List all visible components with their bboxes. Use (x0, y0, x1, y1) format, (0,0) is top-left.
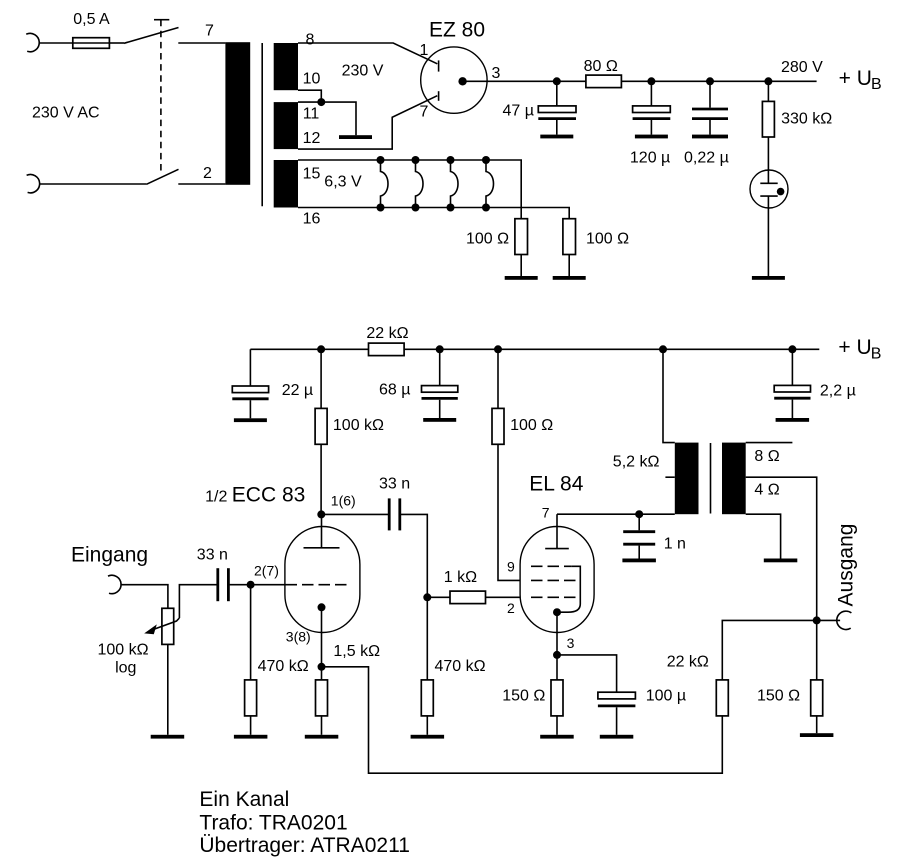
wire anode to coupling cap (321, 513, 388, 515)
capacitor 120u stem (650, 81, 652, 106)
label 22 u (282, 382, 313, 399)
svg-text:7: 7 (205, 23, 214, 40)
label 150 Ohm output (757, 688, 800, 705)
OT core (710, 443, 712, 514)
label 100 Ohm screen (510, 417, 553, 434)
label Eingang (71, 544, 148, 567)
wire plug to switch pole b (39, 183, 146, 185)
svg-text:4 Ω: 4 Ω (754, 482, 779, 499)
heater loop 2 (412, 156, 424, 212)
svg-text:0,22 µ: 0,22 µ (684, 149, 729, 166)
wire fuse to switch (109, 42, 124, 44)
svg-text:7: 7 (542, 505, 550, 521)
svg-text:100 µ: 100 µ (646, 688, 686, 705)
heater loop 1 (377, 156, 389, 212)
label 22 kOhm (366, 325, 408, 342)
svg-text:68 µ: 68 µ (379, 382, 410, 399)
resistor 330k stem (767, 81, 769, 101)
pin 10 label (303, 71, 321, 88)
mains plug top (phase) (26, 33, 39, 51)
wire 33n to grid node (230, 584, 286, 586)
svg-text:1 n: 1 n (664, 535, 686, 552)
svg-text:47 µ: 47 µ (503, 103, 534, 120)
ground 150R output (800, 733, 834, 737)
wire coupling cap to EL84 grid node (401, 514, 427, 597)
output transformer ATRA0211 primary (675, 443, 699, 515)
node ECC83 anode (317, 510, 325, 518)
svg-text:1,5 kΩ: 1,5 kΩ (333, 643, 380, 660)
transformer TRA0201 primary winding (225, 42, 250, 185)
svg-text:5,2 kΩ: 5,2 kΩ (613, 454, 660, 471)
label 1 kOhm stopper (444, 569, 477, 586)
svg-text:B: B (871, 76, 882, 93)
label 120 u (630, 149, 670, 166)
ground 1n (622, 559, 656, 563)
wire B+ rail lower (250, 348, 819, 350)
pin 7 label (205, 23, 214, 40)
svg-text:100 kΩ: 100 kΩ (98, 642, 149, 659)
output jack (837, 611, 852, 629)
neon gas dot (777, 188, 785, 196)
switch link dashed (154, 20, 169, 173)
ground 22u (234, 418, 267, 422)
svg-text:330 kΩ: 330 kΩ (781, 111, 832, 128)
svg-text:10: 10 (303, 71, 321, 88)
wire input jack to pot top (121, 585, 168, 609)
wire screen feed 100R (497, 349, 499, 408)
svg-text:100 kΩ: 100 kΩ (333, 417, 384, 434)
resistor 470k EL84 grid stem (426, 597, 428, 680)
wire 100R to EL84 g2 (498, 444, 520, 580)
resistor 80 Ohm (586, 75, 622, 88)
EZ80 pin 7 label (420, 103, 429, 120)
EZ80 cathode node (458, 77, 466, 85)
label 5,2 kOhm (613, 454, 660, 471)
ground (230V center tap) (339, 135, 372, 139)
svg-text:100 Ω: 100 Ω (466, 231, 509, 248)
label 1/2 ECC 83 (205, 484, 305, 507)
svg-text:150 Ω: 150 Ω (757, 688, 800, 705)
node OT junction (659, 345, 667, 353)
svg-text:1 kΩ: 1 kΩ (444, 569, 477, 586)
svg-text:100 Ω: 100 Ω (510, 417, 553, 434)
node output junction (813, 616, 821, 624)
node 2,2u junction (788, 345, 796, 353)
resistor 100 Ohm humdinger left (515, 219, 528, 276)
svg-text:+ U: + U (839, 67, 872, 90)
label 100 Ohm left (466, 231, 509, 248)
svg-text:120 µ: 120 µ (630, 149, 670, 166)
resistor 100 kOhm (ECC83 anode) (315, 408, 327, 444)
wire pin 12 to EZ80 anode 7 (298, 96, 437, 149)
pin 3 label (567, 635, 575, 651)
caption line 3 (199, 834, 410, 857)
ground 1,5k (305, 735, 339, 739)
svg-text:6,3 V: 6,3 V (324, 174, 362, 191)
label 33 n input (197, 547, 228, 564)
wire 100k to ECC83 anode (320, 444, 322, 514)
label 100 kOhm pot (98, 642, 149, 659)
svg-text:B: B (871, 345, 882, 362)
resistor 470 kOhm (EL84 grid) (421, 680, 433, 735)
svg-text:9: 9 (507, 559, 515, 575)
svg-text:22 µ: 22 µ (282, 382, 313, 399)
capacitor 33n input (218, 568, 229, 601)
ECC83 grid (dashed) (286, 584, 348, 586)
resistor 1 kOhm grid stopper (450, 591, 486, 604)
ground pot (151, 735, 185, 739)
capacitor 120u (electrolytic) (633, 106, 671, 135)
label 280 V (781, 59, 823, 76)
resistor 150 Ohm output (811, 680, 823, 733)
node 100R junction (494, 345, 502, 353)
resistor 100 Ohm (screen) (492, 408, 504, 444)
input jack (108, 575, 121, 593)
pin 16 label (303, 211, 321, 228)
wire switch to trafo pin 7 (178, 42, 225, 44)
node 100k junction (317, 345, 325, 353)
svg-text:12: 12 (303, 130, 321, 147)
label 230 V secondary (342, 63, 384, 80)
ground OT secondary (764, 559, 798, 563)
resistor 22 kOhm feedback (716, 680, 728, 716)
label 0,5 A (73, 11, 110, 28)
EL84 anode plate (545, 514, 569, 548)
svg-text:33 n: 33 n (197, 547, 228, 564)
capacitor 47u (electrolytic) (538, 106, 576, 135)
ground 470k right (411, 735, 445, 739)
svg-text:230 V AC: 230 V AC (32, 105, 100, 122)
resistor 22 kOhm (369, 343, 405, 356)
EZ80 anode tick pin7 (438, 91, 440, 101)
pin 9 label (507, 559, 515, 575)
wire feedback from cathode (322, 667, 723, 773)
label 150 Ohm cathode (502, 688, 545, 705)
svg-text:8 Ω: 8 Ω (754, 448, 779, 465)
ECC83 anode plate (304, 514, 340, 547)
label 6,3 V (324, 174, 362, 191)
wire pin 11 to ground (298, 102, 356, 135)
pin 7 label EL84 (542, 505, 550, 521)
svg-text:16: 16 (303, 211, 321, 228)
OT secondary (722, 443, 746, 515)
heater wire bottom (pin 16) (298, 208, 569, 219)
EZ80 pin 1 label (420, 42, 429, 59)
svg-text:11: 11 (303, 105, 320, 122)
EZ80 pin 3 label (492, 65, 501, 82)
label 8 Ohm (754, 448, 779, 465)
label 80 Ohm (584, 58, 618, 75)
wire pin 8 to EZ80 anode 1 (298, 43, 437, 64)
svg-text:1(6): 1(6) (331, 493, 356, 509)
label 2,2 u (820, 383, 856, 400)
node 330k junction (764, 77, 772, 85)
wire EL84 cathode down (556, 612, 558, 680)
label 22 kOhm feedback (667, 654, 709, 671)
pin 2 label (507, 600, 515, 616)
transformer secondary winding (11-12) (274, 102, 298, 149)
caption line 2 (199, 812, 347, 835)
resistor 330 kOhm (762, 101, 774, 137)
svg-text:3: 3 (567, 635, 575, 651)
ground 470k left (234, 735, 268, 739)
transformer core (261, 43, 263, 206)
svg-text:22 kΩ: 22 kΩ (667, 654, 709, 671)
wire 1k to EL84 g1 (486, 596, 521, 598)
label Ausgang (vertical) (834, 524, 857, 607)
pin 8 label (306, 32, 315, 49)
label 4 Ohm (754, 482, 779, 499)
label log (115, 660, 136, 677)
node 47u junction (553, 77, 561, 85)
ground humdinger right (553, 276, 586, 280)
svg-text:EL 84: EL 84 (529, 473, 583, 496)
svg-text:EZ 80: EZ 80 (429, 19, 485, 42)
svg-text:Ein Kanal: Ein Kanal (199, 788, 289, 811)
label 1,5 kOhm (333, 643, 380, 660)
label 5,2 kOhm tick (665, 476, 674, 478)
resistor 470 kOhm (ECC83 grid) (245, 680, 257, 735)
resistor 470k grid leak stem (250, 585, 252, 680)
wire cathode to 100u (557, 655, 617, 692)
label EL 84 (529, 473, 583, 496)
svg-text:1: 1 (420, 42, 429, 59)
resistor 150 Ohm cathode (551, 680, 563, 735)
heater wire top (pin 15) (298, 160, 521, 219)
EZ80 label (429, 19, 485, 42)
node 120u junction (647, 77, 655, 85)
wire 8 Ohm tap (746, 442, 793, 444)
wire B+ rail top (463, 80, 586, 82)
wire 330k to neon (767, 137, 769, 183)
fuse F1 (73, 38, 110, 49)
capacitor 0,22u (film) (692, 109, 728, 135)
caption line 1 (199, 788, 289, 811)
svg-text:100 Ω: 100 Ω (586, 231, 629, 248)
wire EL84 anode to OT (557, 513, 675, 515)
svg-text:2: 2 (203, 165, 212, 182)
label 100 u (646, 688, 686, 705)
svg-text:230 V: 230 V (342, 63, 384, 80)
ground 0,22u (692, 135, 728, 139)
capacitor 2,2u stem (791, 349, 793, 385)
pin 3(8) label (286, 629, 311, 645)
svg-text:470 kΩ: 470 kΩ (258, 658, 309, 675)
capacitor 22u stem (249, 349, 251, 386)
switch S1 pole b (146, 169, 178, 184)
svg-text:15: 15 (303, 166, 321, 183)
ground 100u (600, 735, 634, 739)
mains plug bottom (neutral) (27, 174, 40, 192)
heater loop 4 (482, 156, 494, 212)
svg-text:22 kΩ: 22 kΩ (366, 325, 408, 342)
node ECC83 cathode junction (318, 663, 326, 671)
wire cathode down (321, 607, 323, 680)
svg-text:33 n: 33 n (379, 476, 410, 493)
resistor 150 Ohm output stem (816, 620, 818, 680)
ground neon (752, 276, 785, 280)
neon electrode top (760, 182, 777, 184)
wire pin 10 (298, 90, 321, 102)
resistor 100k stem (320, 349, 322, 408)
EZ80 anode tick pin1 (438, 60, 440, 71)
label 1 n (664, 535, 686, 552)
pin 15 label (303, 166, 321, 183)
label + UB top (839, 67, 882, 93)
ground 2,2u (776, 418, 810, 422)
EL84 g3 (dashed, to cathode) (531, 566, 580, 612)
neon lamp envelope (750, 170, 788, 208)
ground 68u (423, 418, 456, 422)
capacitor 33n coupling (interstage) (389, 498, 400, 530)
wire switch to trafo pin 2 (178, 183, 225, 185)
svg-text:2(7): 2(7) (254, 563, 279, 579)
EL84 g2 screen (dashed) (531, 579, 576, 581)
ground 150R cathode (540, 735, 574, 739)
label 100 kOhm (333, 417, 384, 434)
pin 11 label (303, 105, 320, 122)
label + UB lower (838, 336, 881, 362)
pin 1(6) label (331, 493, 356, 509)
svg-text:150 Ω: 150 Ω (502, 688, 545, 705)
svg-text:Eingang: Eingang (71, 544, 148, 567)
label 230 V AC (32, 105, 100, 122)
svg-text:470 kΩ: 470 kΩ (435, 658, 486, 675)
wire plug to fuse (39, 42, 73, 44)
wire OT secondary bottom to ground (746, 514, 781, 558)
label 100 Ohm right (586, 231, 629, 248)
node 68u junction (436, 345, 444, 353)
svg-text:3(8): 3(8) (286, 629, 311, 645)
node 0,22u junction (706, 77, 714, 85)
svg-text:280 V: 280 V (781, 59, 823, 76)
transformer secondary winding 230V (8-10) (274, 43, 298, 90)
node pin10/11 junction (317, 98, 325, 106)
ground 120u (635, 135, 668, 139)
capacitor 68u stem (439, 349, 441, 385)
label 47 u (503, 103, 534, 120)
wire 80R to rail end (621, 80, 816, 82)
capacitor 1n stem (638, 514, 640, 530)
potentiometer 100k log (144, 608, 179, 644)
pin 12 label (303, 130, 321, 147)
EL84 g1 (dashed) (531, 596, 576, 598)
transformer secondary winding 6,3V (15-16) (274, 160, 298, 208)
wire neon to ground (767, 196, 769, 276)
wire node to jack (817, 619, 840, 621)
capacitor 2,2u (electrolytic) (774, 385, 810, 418)
label 0,22 u (684, 149, 729, 166)
svg-text:2: 2 (507, 600, 515, 616)
svg-text:Trafo: TRA0201: Trafo: TRA0201 (199, 812, 347, 835)
ground humdinger left (505, 276, 538, 280)
rectifier tube EZ 80 envelope (421, 47, 487, 113)
heater loop 3 (447, 156, 459, 212)
svg-text:80 Ω: 80 Ω (584, 58, 618, 75)
svg-text:log: log (115, 660, 136, 677)
pin 2 label (203, 165, 212, 182)
resistor 100 Ohm humdinger right (563, 219, 576, 276)
switch S1 pole a (124, 28, 179, 44)
svg-text:Übertrager: ATRA0211: Übertrager: ATRA0211 (199, 834, 410, 857)
EL84 cathode dot (553, 608, 561, 616)
capacitor 1n (film) (623, 532, 655, 559)
pentode EL 84 envelope (520, 527, 594, 633)
svg-text:8: 8 (306, 32, 315, 49)
label 470 kOhm left (258, 658, 309, 675)
capacitor 100u (electrolytic) (598, 692, 636, 735)
svg-text:+ U: + U (838, 336, 871, 359)
capacitor 22u (electrolytic) (232, 386, 268, 418)
svg-text:3: 3 (492, 65, 501, 82)
wire 22k to output node (722, 620, 816, 680)
wire node to 1k (427, 596, 450, 598)
svg-text:0,5 A: 0,5 A (73, 11, 110, 28)
triode 1/2 ECC 83 envelope (285, 527, 360, 633)
wire pot to ground (167, 644, 169, 734)
capacitor 47u stem (556, 81, 558, 106)
label 33 n interstage (379, 476, 410, 493)
svg-text:2,2 µ: 2,2 µ (820, 383, 856, 400)
neon electrode bottom (760, 195, 777, 197)
wire 4 Ohm tap to output (746, 477, 817, 620)
svg-text:Ausgang: Ausgang (834, 524, 857, 607)
node 1n junction (635, 510, 643, 518)
wire rail to OT primary (663, 349, 675, 442)
ground 47u (540, 135, 573, 139)
pin 2(7) label (254, 563, 279, 579)
ECC83 cathode dot (318, 603, 326, 611)
node EL84 grid (423, 593, 431, 601)
svg-text:7: 7 (420, 103, 429, 120)
capacitor 0,22u stem (709, 81, 711, 107)
capacitor 68u (electrolytic) (422, 386, 458, 418)
label 330 kOhm (781, 111, 832, 128)
label 68 u (379, 382, 410, 399)
node ECC83 grid (247, 581, 255, 589)
node EL84 cathode junction (553, 651, 561, 659)
wire pot wiper to 33n (179, 585, 216, 618)
resistor 1,5 kOhm (316, 680, 328, 735)
label 470 kOhm right (435, 658, 486, 675)
